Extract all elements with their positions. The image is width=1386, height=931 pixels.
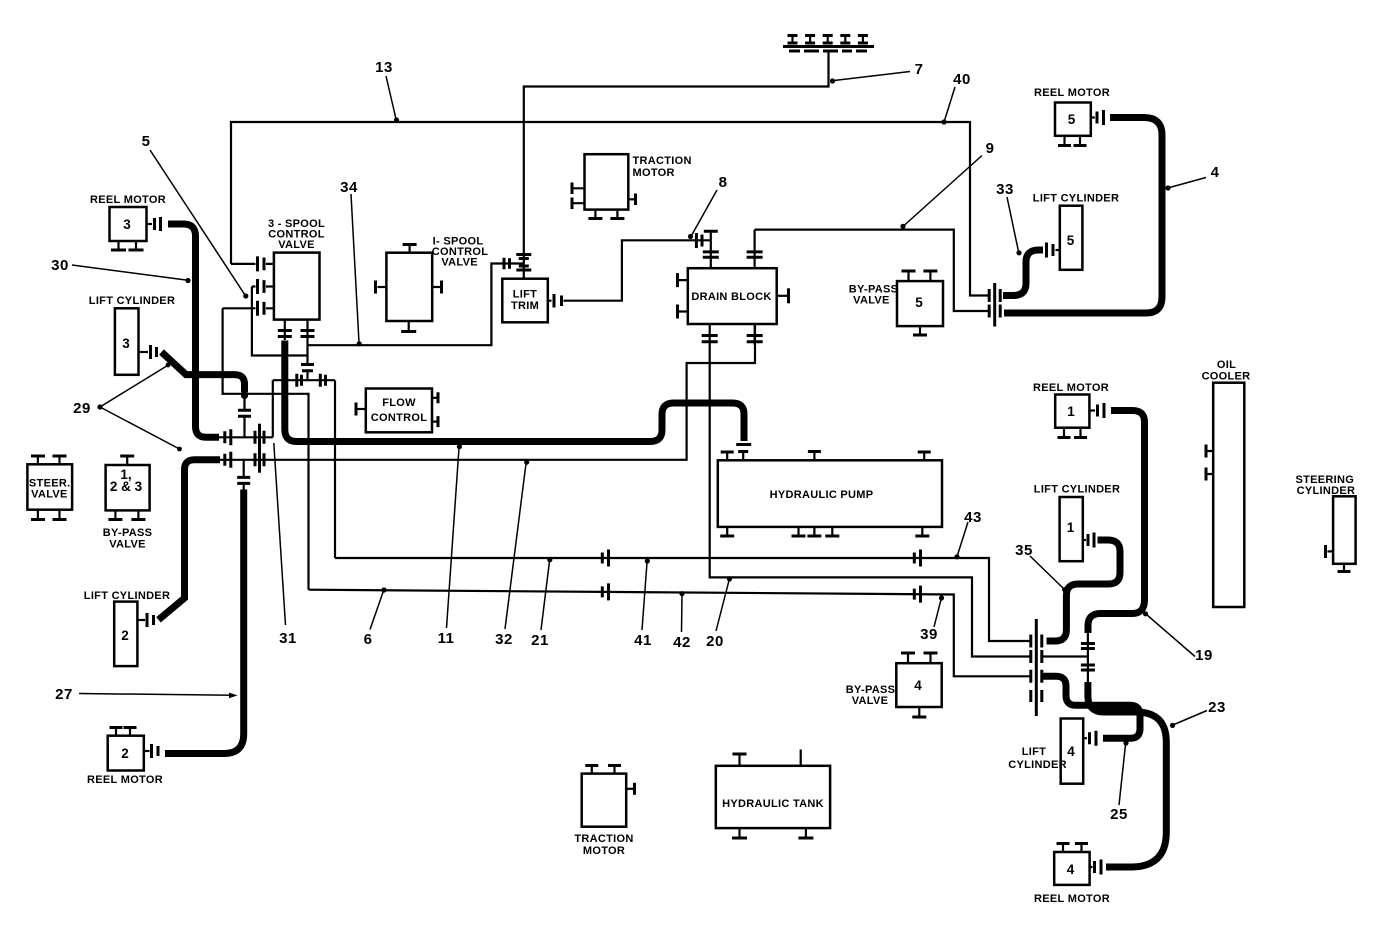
lift cylinder 1 [1034,484,1120,562]
svg-text:5: 5 [915,295,923,310]
svg-text:LIFT CYLINDER: LIFT CYLINDER [89,295,175,307]
label 29 [73,363,182,452]
svg-text:9: 9 [986,140,995,157]
svg-text:VALVE: VALVE [278,239,315,251]
coupler bars on 8 line [696,233,702,248]
svg-text:CONTROL: CONTROL [371,412,427,424]
svg-text:OIL: OIL [1217,359,1236,371]
label 42 [673,591,691,651]
svg-text:1: 1 [1067,404,1075,419]
svg-text:FLOW: FLOW [382,397,416,409]
svg-text:TRACTION: TRACTION [574,833,633,845]
port cap 3-spool lower port to mid coupler [301,365,314,371]
svg-text:4: 4 [914,678,922,693]
svg-text:CYLINDER: CYLINDER [1008,759,1067,771]
svg-text:33: 33 [996,181,1014,198]
wire mid coupler right riser to line A [334,380,336,558]
svg-text:TRIM: TRIM [511,300,539,312]
wire outer path from 3-spool lower port [223,308,309,589]
svg-text:20: 20 [706,633,724,650]
svg-text:7: 7 [915,61,924,78]
left gang coupler bottom stub [237,460,250,490]
junction dot hose to gang coupler [241,392,248,399]
hose reel motor 3 to gang port 1 [168,224,219,437]
svg-text:1: 1 [1067,520,1075,535]
svg-text:32: 32 [495,631,513,648]
wire line A [335,558,1030,641]
svg-text:35: 35 [1015,542,1033,559]
svg-text:VALVE: VALVE [441,257,478,269]
steer valve [27,456,72,520]
svg-text:6: 6 [364,631,373,648]
reel motor 4 [1034,844,1110,906]
traction motor (top) [572,154,692,218]
reel motor 1 [1033,382,1109,438]
wire mid coupler left riser to gang port 1 [272,380,274,437]
svg-text:REEL MOTOR: REEL MOTOR [90,194,166,206]
label 32 [495,460,529,648]
svg-text:TRACTION: TRACTION [633,155,692,167]
svg-text:25: 25 [1110,806,1128,823]
hose 19 reel motor 1 to small coupler [1088,411,1145,634]
3-spool control valve [223,218,325,365]
label 34 [340,179,362,346]
wire 13/40 line [231,122,988,296]
svg-text:REEL MOTOR: REEL MOTOR [1034,893,1110,905]
inline coupler line A right [914,550,920,567]
svg-text:LIFT: LIFT [1022,746,1046,758]
label 33 [996,181,1021,255]
reel motor 3 [90,194,166,250]
svg-text:CYLINDER: CYLINDER [1297,485,1356,497]
svg-text:4: 4 [1067,862,1075,877]
flow control valve [356,389,438,433]
hose 23 small coupler to reel motor 4 [1088,682,1166,867]
label 39 [920,595,944,643]
wire right gang to small coupler [1042,655,1088,657]
hose lift cylinder 2 to gang port 2 [159,460,221,620]
reel motor 2 [87,728,163,787]
svg-text:8: 8 [719,174,728,191]
wire inner path from 3-spool mid port [252,287,308,356]
svg-text:2: 2 [121,628,129,643]
svg-text:2 & 3: 2 & 3 [110,479,143,494]
hose 11 3-spool valve to hydraulic pump [285,341,744,442]
svg-text:VALVE: VALVE [852,695,889,707]
svg-text:COOLER: COOLER [1202,371,1251,383]
hose gang port 4 to lift cylinder 4 [1043,676,1141,738]
svg-text:REEL MOTOR: REEL MOTOR [1034,87,1110,99]
small coupler at column 2 [1081,633,1095,682]
label 5 [142,133,249,299]
svg-text:LIFT CYLINDER: LIFT CYLINDER [84,590,170,602]
svg-text:39: 39 [920,626,938,643]
svg-text:41: 41 [634,632,652,649]
hose 4 reel motor 5 to coupler [1004,118,1162,314]
svg-text:VALVE: VALVE [109,539,146,551]
label 11 [438,444,462,647]
traction motor (bottom) [574,766,634,858]
wire line B [309,590,1031,677]
hydraulic pump [718,445,942,537]
coupler bars mid coupler [297,374,326,387]
svg-text:LIFT CYLINDER: LIFT CYLINDER [1034,484,1120,496]
svg-text:42: 42 [673,634,691,651]
label 9 [900,140,994,229]
inline coupler line B right [914,586,920,603]
label 7 [830,61,924,84]
svg-text:HYDRAULIC TANK: HYDRAULIC TANK [722,798,824,810]
svg-text:5: 5 [1067,233,1075,248]
svg-text:30: 30 [51,257,69,274]
svg-text:11: 11 [438,630,455,647]
reel motor 5 [1034,87,1110,146]
svg-text:23: 23 [1208,699,1226,716]
svg-text:VALVE: VALVE [853,295,890,307]
svg-text:21: 21 [531,632,549,649]
label 23 [1170,699,1226,728]
by-pass valve 1,2,3 [103,456,153,551]
1-spool control valve [376,236,489,332]
wire mid coupler line [273,379,335,381]
svg-text:4: 4 [1211,164,1220,181]
hose 27 gang coupler to reel motor 2 [165,490,244,754]
svg-text:5: 5 [1068,112,1076,127]
hydraulic tank [716,750,830,839]
svg-text:5: 5 [142,133,151,150]
inline coupler line A left [602,550,608,567]
svg-text:MOTOR: MOTOR [633,167,675,179]
hose 33 coupler to lift cylinder 5 [1003,250,1043,296]
left gang coupler top stub [238,396,251,438]
hose lift cylinder 3 to junction [162,352,245,393]
label 4 [1165,164,1219,191]
lift cylinder 3 [89,295,175,375]
label 13 [375,59,399,123]
label 19 [1143,611,1213,664]
label 8 [688,174,728,239]
svg-text:27: 27 [55,686,73,703]
lift trim valve [502,255,566,323]
label 20 [706,576,732,650]
svg-text:MOTOR: MOTOR [583,845,625,857]
wire 34 line to lift trim riser [308,264,524,346]
manifold symbol [783,36,874,52]
svg-text:DRAIN BLOCK: DRAIN BLOCK [691,291,771,303]
svg-text:LIFT CYLINDER: LIFT CYLINDER [1033,193,1119,205]
label 25 [1110,740,1128,823]
by-pass valve 5 [849,271,943,335]
svg-text:3: 3 [122,336,130,351]
lift cylinder 4 [1008,719,1096,784]
svg-text:13: 13 [375,59,393,76]
label 31 [274,443,297,647]
wire gang port 2 line to drain block [217,324,755,460]
svg-text:LIFT: LIFT [513,289,537,301]
svg-text:29: 29 [73,400,91,417]
oil cooler [1202,359,1251,607]
svg-text:34: 34 [340,179,358,196]
svg-text:HYDRAULIC PUMP: HYDRAULIC PUMP [770,489,874,501]
hose 35 lift cylinder 1 to gang port 1 [1047,540,1121,641]
wire middle line drain block to right coupler [710,345,1030,657]
lift cylinder 2 [84,590,170,666]
wire 8 line lift trim to drain block [566,240,711,300]
drain block [678,230,789,345]
svg-text:40: 40 [953,71,971,88]
steering cylinder [1295,474,1355,572]
coupler on 40/9 lines [989,283,1000,327]
svg-text:VALVE: VALVE [31,489,68,501]
left gang coupler [225,424,264,473]
svg-text:19: 19 [1195,647,1213,664]
svg-text:BY-PASS: BY-PASS [103,527,153,539]
label 21 [531,557,552,649]
svg-text:3: 3 [123,217,131,232]
label 40 [941,71,970,125]
label 41 [634,558,652,649]
svg-text:31: 31 [279,630,297,647]
wire 9 line drain block to coupler [755,230,988,311]
inline coupler line B left [602,583,608,600]
label 30 [51,257,190,283]
right gang coupler [1031,619,1042,716]
label 6 [364,587,387,648]
wire gang port 1 line [215,436,273,438]
svg-text:2: 2 [121,746,129,761]
svg-text:43: 43 [964,509,982,526]
label 43 [954,509,981,559]
by-pass valve 4 [846,653,942,717]
svg-text:REEL MOTOR: REEL MOTOR [87,774,163,786]
label 35 [1015,542,1067,592]
label 27 [55,686,237,703]
svg-text:REEL MOTOR: REEL MOTOR [1033,382,1109,394]
svg-text:4: 4 [1067,744,1075,759]
lift cylinder 5 [1033,193,1119,270]
wire manifold drop to lift trim [524,51,829,279]
